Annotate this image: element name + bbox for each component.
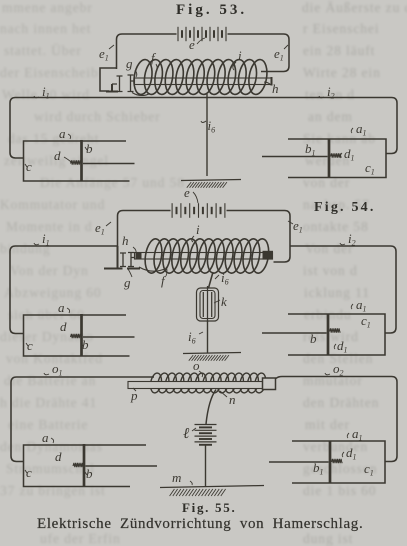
caption Fig. 54: [314, 200, 376, 216]
svg-text:ℓ: ℓ: [183, 426, 189, 442]
svg-text:k: k: [221, 294, 227, 309]
centre tap wire (Fig.55): [206, 390, 216, 425]
svg-text:i1: i1: [42, 84, 50, 101]
svg-text:d: d: [55, 449, 62, 464]
svg-text:b: b: [310, 331, 317, 346]
svg-text:o2: o2: [333, 361, 344, 378]
svg-text:h: h: [272, 81, 279, 96]
svg-text:i2: i2: [348, 231, 356, 248]
spark gap spring (Fig.54 right plug): [330, 328, 341, 332]
interrupter contact bars g (Fig.53): [112, 76, 123, 92]
spark plug right body (Fig.55): [292, 441, 385, 483]
earth ground (Fig.54): [183, 353, 241, 354]
battery E cells (Fig.53): [177, 27, 179, 41]
svg-text:b: b: [86, 141, 93, 156]
svg-text:a: a: [59, 126, 66, 141]
svg-text:i1: i1: [42, 231, 50, 248]
svg-text:n: n: [229, 392, 236, 407]
electrode bar (Fig.54 left plug): [80, 314, 83, 357]
spark plug left body (Fig.53): [24, 141, 130, 181]
svg-text:e: e: [189, 37, 195, 52]
induction coil I primary winding (Fig.53): [132, 58, 270, 95]
resistance block k (Fig.54): [197, 288, 219, 321]
battery stack l (Fig.55): [195, 424, 217, 426]
svg-text:a: a: [58, 300, 65, 315]
caption Fig. 55: [182, 500, 236, 516]
spark plug left body (Fig.55): [24, 445, 147, 487]
spark gap spring d1 (Fig.53 right plug): [331, 153, 342, 157]
battery E (Fig.53) top wire: [117, 34, 290, 69]
earth ground m (Fig.55): [160, 486, 264, 488]
svg-text:e: e: [184, 185, 190, 200]
wire battery right to coil (Fig.53): [261, 66, 289, 72]
magneto loop wire left o1 (Fig.55): [11, 377, 154, 462]
iron core rod f (Fig.54): [135, 253, 273, 260]
main figure caption: [37, 516, 363, 533]
electrode lead (Fig.53 right plug): [262, 156, 328, 158]
interrupter contact bars g (Fig.54): [120, 253, 126, 267]
electrode bar (Fig.55 right plug): [329, 441, 332, 484]
wire down to interrupter foot (Fig.54): [104, 246, 140, 269]
electrode lead (Fig.54 left plug): [83, 336, 135, 338]
svg-text:b: b: [86, 466, 93, 481]
electrode lead (Fig.53 left plug): [83, 163, 135, 165]
svg-text:i6: i6: [208, 118, 216, 135]
earth ground (Fig.53): [181, 180, 241, 181]
svg-text:i6: i6: [188, 329, 196, 346]
svg-text:d1: d1: [344, 146, 355, 163]
svg-text:i2: i2: [327, 84, 335, 101]
svg-text:a1: a1: [352, 426, 363, 443]
wire battery to ground (Fig.55): [205, 445, 207, 487]
spark plug right body (Fig.53): [288, 139, 386, 178]
contact anvil (Fig.53): [106, 84, 118, 92]
svg-text:c1: c1: [361, 313, 371, 330]
svg-text:a: a: [42, 430, 49, 445]
armature winding o (Fig.55): [149, 372, 267, 394]
electrode bar (Fig.55 left plug): [83, 444, 86, 487]
svg-text:e1: e1: [274, 46, 284, 63]
svg-text:p: p: [130, 388, 138, 403]
iron core rod f (Fig.53): [135, 78, 272, 85]
centre tap wire i6 (Fig.53): [206, 94, 208, 176]
outer loop wire right i2 (Fig.54): [290, 246, 396, 333]
centre tap wire (Fig.54): [209, 272, 214, 288]
wire from battery to interrupter (Fig.53 left step): [100, 68, 117, 91]
wire into left spark plug (Fig.53): [10, 153, 24, 159]
secondary loop frame wire (Fig.53) i1-i2: [10, 98, 397, 153]
armature core rod p (Fig.55): [128, 382, 274, 389]
svg-text:b: b: [82, 337, 89, 352]
svg-text:c1: c1: [364, 461, 374, 478]
winding end swoop (Fig.53): [132, 93, 150, 96]
svg-text:d: d: [54, 148, 61, 163]
svg-text:a1: a1: [356, 121, 367, 138]
svg-text:e1: e1: [293, 218, 303, 235]
svg-text:m: m: [172, 470, 181, 485]
svg-text:d1: d1: [346, 445, 357, 462]
svg-text:e1: e1: [99, 46, 109, 63]
electrode bar (Fig.54 right plug): [327, 314, 330, 356]
electrode lead (Fig.54 right plug): [262, 332, 327, 334]
svg-text:i: i: [238, 48, 242, 63]
electrode lead (Fig.55 left plug): [86, 465, 158, 467]
electrode bar b (Fig.53 left plug): [80, 140, 83, 182]
spark plug left body (Fig.54): [24, 315, 130, 356]
svg-text:c1: c1: [365, 160, 375, 177]
spark gap spring d (Fig.53 left plug): [71, 160, 82, 164]
svg-text:b1: b1: [305, 141, 316, 158]
svg-text:i: i: [196, 222, 200, 237]
outer loop wire left i1 (Fig.54): [10, 246, 118, 334]
svg-text:d1: d1: [337, 338, 348, 355]
battery E cells (Fig.54): [171, 203, 173, 218]
svg-text:h: h: [122, 233, 129, 248]
svg-text:g: g: [126, 56, 133, 71]
spark gap spring (Fig.55 left plug): [73, 463, 84, 467]
electrode lead (Fig.55 right plug): [269, 461, 329, 463]
wire into right spark plug (Fig.53): [386, 148, 397, 154]
wire k to ground (Fig.54): [207, 321, 209, 353]
spark plug right body (Fig.54): [288, 314, 385, 355]
electrode bar b1 (Fig.53 right plug): [328, 139, 331, 179]
svg-text:o: o: [193, 358, 200, 373]
winding end swoop (Fig.54): [139, 267, 166, 271]
svg-text:g: g: [124, 275, 131, 290]
svg-text:e1: e1: [95, 220, 105, 237]
svg-text:f: f: [151, 50, 157, 65]
spark gap spring (Fig.54 left plug): [71, 334, 82, 338]
caption Fig. 53: [176, 2, 247, 19]
magneto loop wire right o2 (Fig.55): [276, 377, 397, 462]
svg-text:d: d: [60, 319, 67, 334]
spark gap spring (Fig.55 right plug): [332, 459, 343, 463]
svg-text:a1: a1: [356, 297, 367, 314]
svg-text:o1: o1: [52, 361, 63, 378]
induction coil I winding (Fig.54): [143, 238, 271, 275]
battery E (Fig.54) top wire: [118, 211, 291, 263]
